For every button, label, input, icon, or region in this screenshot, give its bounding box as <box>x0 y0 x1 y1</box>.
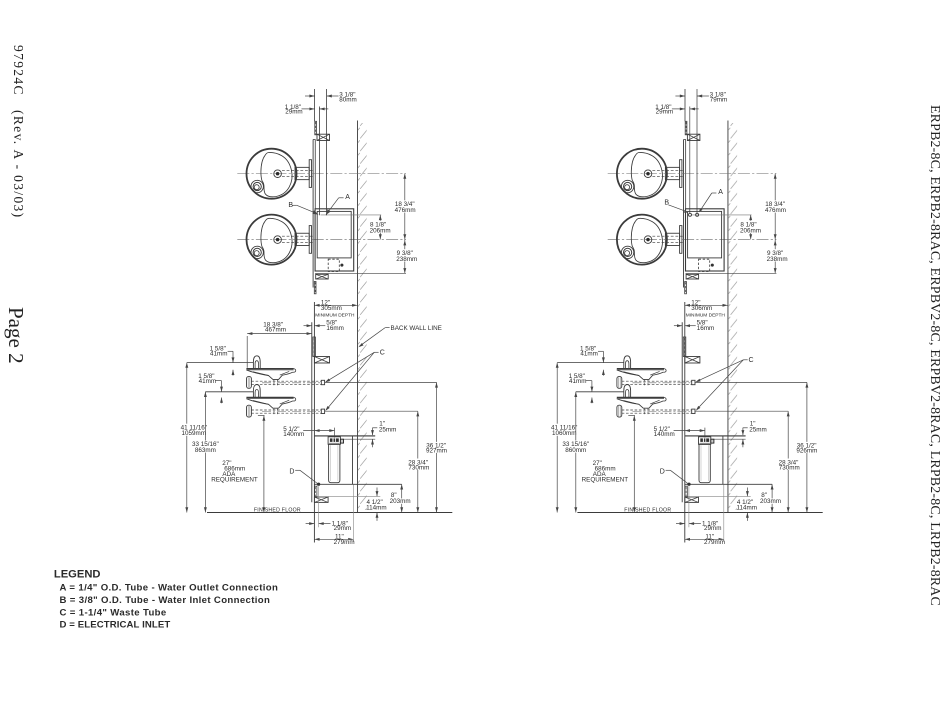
svg-text:29mm: 29mm <box>334 525 352 532</box>
svg-text:A: A <box>345 194 350 201</box>
svg-text:B = 3/8" O.D. Tube - Water Inl: B = 3/8" O.D. Tube - Water Inlet Connect… <box>60 595 271 606</box>
svg-text:29mm: 29mm <box>704 525 722 532</box>
svg-text:926mm: 926mm <box>796 447 817 454</box>
svg-text:206mm: 206mm <box>370 227 391 234</box>
svg-text:C = 1-1/4" Waste Tube: C = 1-1/4" Waste Tube <box>60 607 167 618</box>
svg-text:279mm: 279mm <box>704 539 725 546</box>
svg-text:863mm: 863mm <box>195 447 216 454</box>
svg-text:730mm: 730mm <box>779 464 800 471</box>
svg-text:114mm: 114mm <box>366 504 387 511</box>
svg-text:467mm: 467mm <box>265 326 286 333</box>
svg-text:29mm: 29mm <box>285 109 303 116</box>
svg-text:238mm: 238mm <box>396 256 417 263</box>
svg-text:16mm: 16mm <box>326 325 344 332</box>
svg-text:A = 1/4" O.D. Tube - Water Out: A = 1/4" O.D. Tube - Water Outlet Connec… <box>60 582 279 593</box>
svg-text:B: B <box>664 199 669 206</box>
svg-text:D: D <box>660 469 665 476</box>
svg-text:1060mm: 1060mm <box>552 430 577 437</box>
svg-text:D: D <box>289 469 294 476</box>
svg-text:25mm: 25mm <box>749 426 767 433</box>
svg-text:C: C <box>380 350 385 357</box>
svg-text:16mm: 16mm <box>697 325 715 332</box>
svg-text:305mm: 305mm <box>321 305 342 312</box>
svg-text:238mm: 238mm <box>767 256 788 263</box>
svg-text:41mm: 41mm <box>210 351 228 358</box>
svg-text:860mm: 860mm <box>565 447 586 454</box>
svg-text:FINISHED FLOOR: FINISHED FLOOR <box>254 508 301 514</box>
svg-text:41mm: 41mm <box>199 378 217 385</box>
svg-text:203mm: 203mm <box>390 498 411 505</box>
svg-text:203mm: 203mm <box>760 498 781 505</box>
svg-text:MINIMUM DEPTH: MINIMUM DEPTH <box>315 313 355 319</box>
svg-text:140mm: 140mm <box>283 431 304 438</box>
svg-text:1059mm: 1059mm <box>182 430 207 437</box>
svg-text:206mm: 206mm <box>740 227 761 234</box>
svg-text:29mm: 29mm <box>656 109 674 116</box>
svg-text:REQUIREMENT: REQUIREMENT <box>582 477 629 484</box>
svg-text:730mm: 730mm <box>408 464 429 471</box>
svg-text:C: C <box>749 357 754 364</box>
svg-text:LEGEND: LEGEND <box>54 568 101 580</box>
svg-text:476mm: 476mm <box>395 207 416 214</box>
svg-text:114mm: 114mm <box>737 504 758 511</box>
svg-text:927mm: 927mm <box>426 447 447 454</box>
svg-text:D = ELECTRICAL INLET: D = ELECTRICAL INLET <box>60 619 171 630</box>
svg-text:MINIMUM DEPTH: MINIMUM DEPTH <box>686 313 726 319</box>
svg-text:25mm: 25mm <box>379 426 397 433</box>
svg-text:FINISHED FLOOR: FINISHED FLOOR <box>624 508 671 514</box>
svg-text:79mm: 79mm <box>710 96 728 103</box>
svg-text:ERPB2-8C, ERPB2-8RAC, ERPBV2-8: ERPB2-8C, ERPB2-8RAC, ERPBV2-8C, ERPBV2-… <box>927 105 942 606</box>
svg-text:A: A <box>718 189 723 196</box>
svg-text:41mm: 41mm <box>569 378 587 385</box>
svg-text:279mm: 279mm <box>334 539 355 546</box>
svg-text:BACK WALL LINE: BACK WALL LINE <box>391 325 442 332</box>
svg-text:306mm: 306mm <box>691 305 712 312</box>
svg-text:Page 2: Page 2 <box>4 307 28 364</box>
svg-text:97924C (Rev. A - 03/03): 97924C (Rev. A - 03/03) <box>11 45 26 219</box>
svg-text:80mm: 80mm <box>339 96 357 103</box>
svg-text:140mm: 140mm <box>654 431 675 438</box>
svg-text:REQUIREMENT: REQUIREMENT <box>211 477 258 484</box>
svg-text:41mm: 41mm <box>580 351 598 358</box>
svg-text:476mm: 476mm <box>765 207 786 214</box>
